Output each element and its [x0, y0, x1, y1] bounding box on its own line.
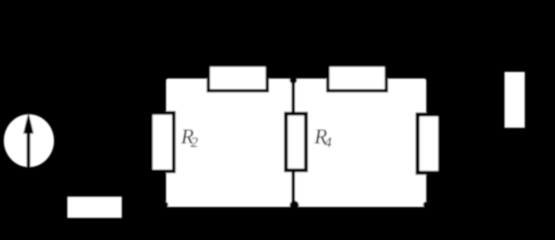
node (bottom right corner): [423, 201, 430, 208]
resistor (far right, vertical): [505, 72, 525, 128]
mesh 2 interior (right loop): [295, 79, 426, 208]
current source body: [4, 114, 54, 167]
mesh 1 interior (left loop): [166, 79, 292, 208]
wire (middle shared branch): [292, 79, 296, 208]
svg-text:4: 4: [324, 135, 332, 151]
resistor (bottom left, horizontal): [67, 197, 122, 218]
node (bottom middle junction): [290, 201, 299, 210]
node (bottom left corner): [161, 201, 168, 208]
svg-text:2: 2: [191, 135, 199, 151]
resistor (top of left mesh): [208, 65, 267, 91]
resistor (right branch of right mesh): [418, 114, 441, 172]
resistor (top of right mesh): [328, 65, 387, 91]
current source arrow stem: [27, 132, 31, 168]
resistor R2 (left branch): [151, 113, 174, 171]
resistor R4 (middle branch): [286, 114, 306, 171]
node (top middle junction): [290, 77, 297, 84]
current source arrow head: [23, 112, 33, 133]
